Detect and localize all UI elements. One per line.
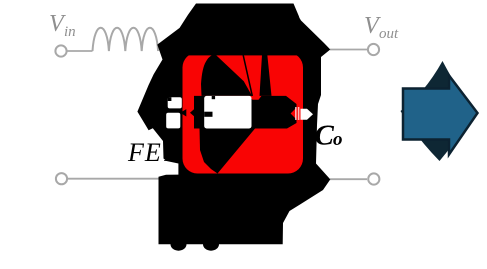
logo red rounded square — [183, 53, 304, 174]
logo black slit top-right — [260, 55, 272, 96]
wire bottom-right return — [330, 178, 367, 180]
logo black wedge top-left — [201, 55, 252, 96]
white band piece upper-left (outside logo) — [168, 97, 182, 108]
terminal Vin — [55, 45, 66, 56]
blob overlay (black silhouette covering switch node) — [137, 4, 330, 251]
black cover over logo top edge — [181, 50, 304, 55]
white stripes on red right strip — [295, 107, 297, 120]
arrow teal right-pointing — [403, 76, 478, 155]
white band block right of red strip — [204, 96, 251, 129]
black dent on white block top — [212, 96, 215, 99]
black bowtie pinch on red left strip — [180, 109, 186, 116]
inductor L1 — [93, 28, 159, 51]
wire Vin to inductor — [67, 50, 93, 52]
svg-text:C: C — [315, 120, 335, 152]
svg-text:out: out — [379, 26, 399, 42]
logo black middle band (with pointed right end) — [194, 96, 297, 129]
black notch on white block left-middle — [204, 112, 212, 117]
logo black bottom triangle — [200, 129, 256, 174]
svg-text:in: in — [64, 24, 76, 40]
capacitor Co label — [315, 120, 343, 152]
arrow dark diamond backdrop — [401, 61, 475, 161]
node Vin label — [49, 11, 76, 40]
terminal bottom-left — [56, 173, 67, 184]
white band piece lower-left (outside logo) — [166, 113, 180, 129]
terminal Vout — [368, 44, 379, 55]
black separator line between red pieces (strip left boundary) — [243, 55, 252, 96]
wire blob to Vout terminal — [330, 49, 367, 51]
white pentagon pointer at logo right edge — [301, 109, 314, 120]
svg-text:o: o — [333, 129, 343, 150]
black dent on upper-left white piece — [168, 97, 172, 101]
wire bottom-left return — [68, 178, 160, 180]
node Vout label — [364, 13, 399, 42]
terminal bottom-right — [368, 173, 379, 184]
